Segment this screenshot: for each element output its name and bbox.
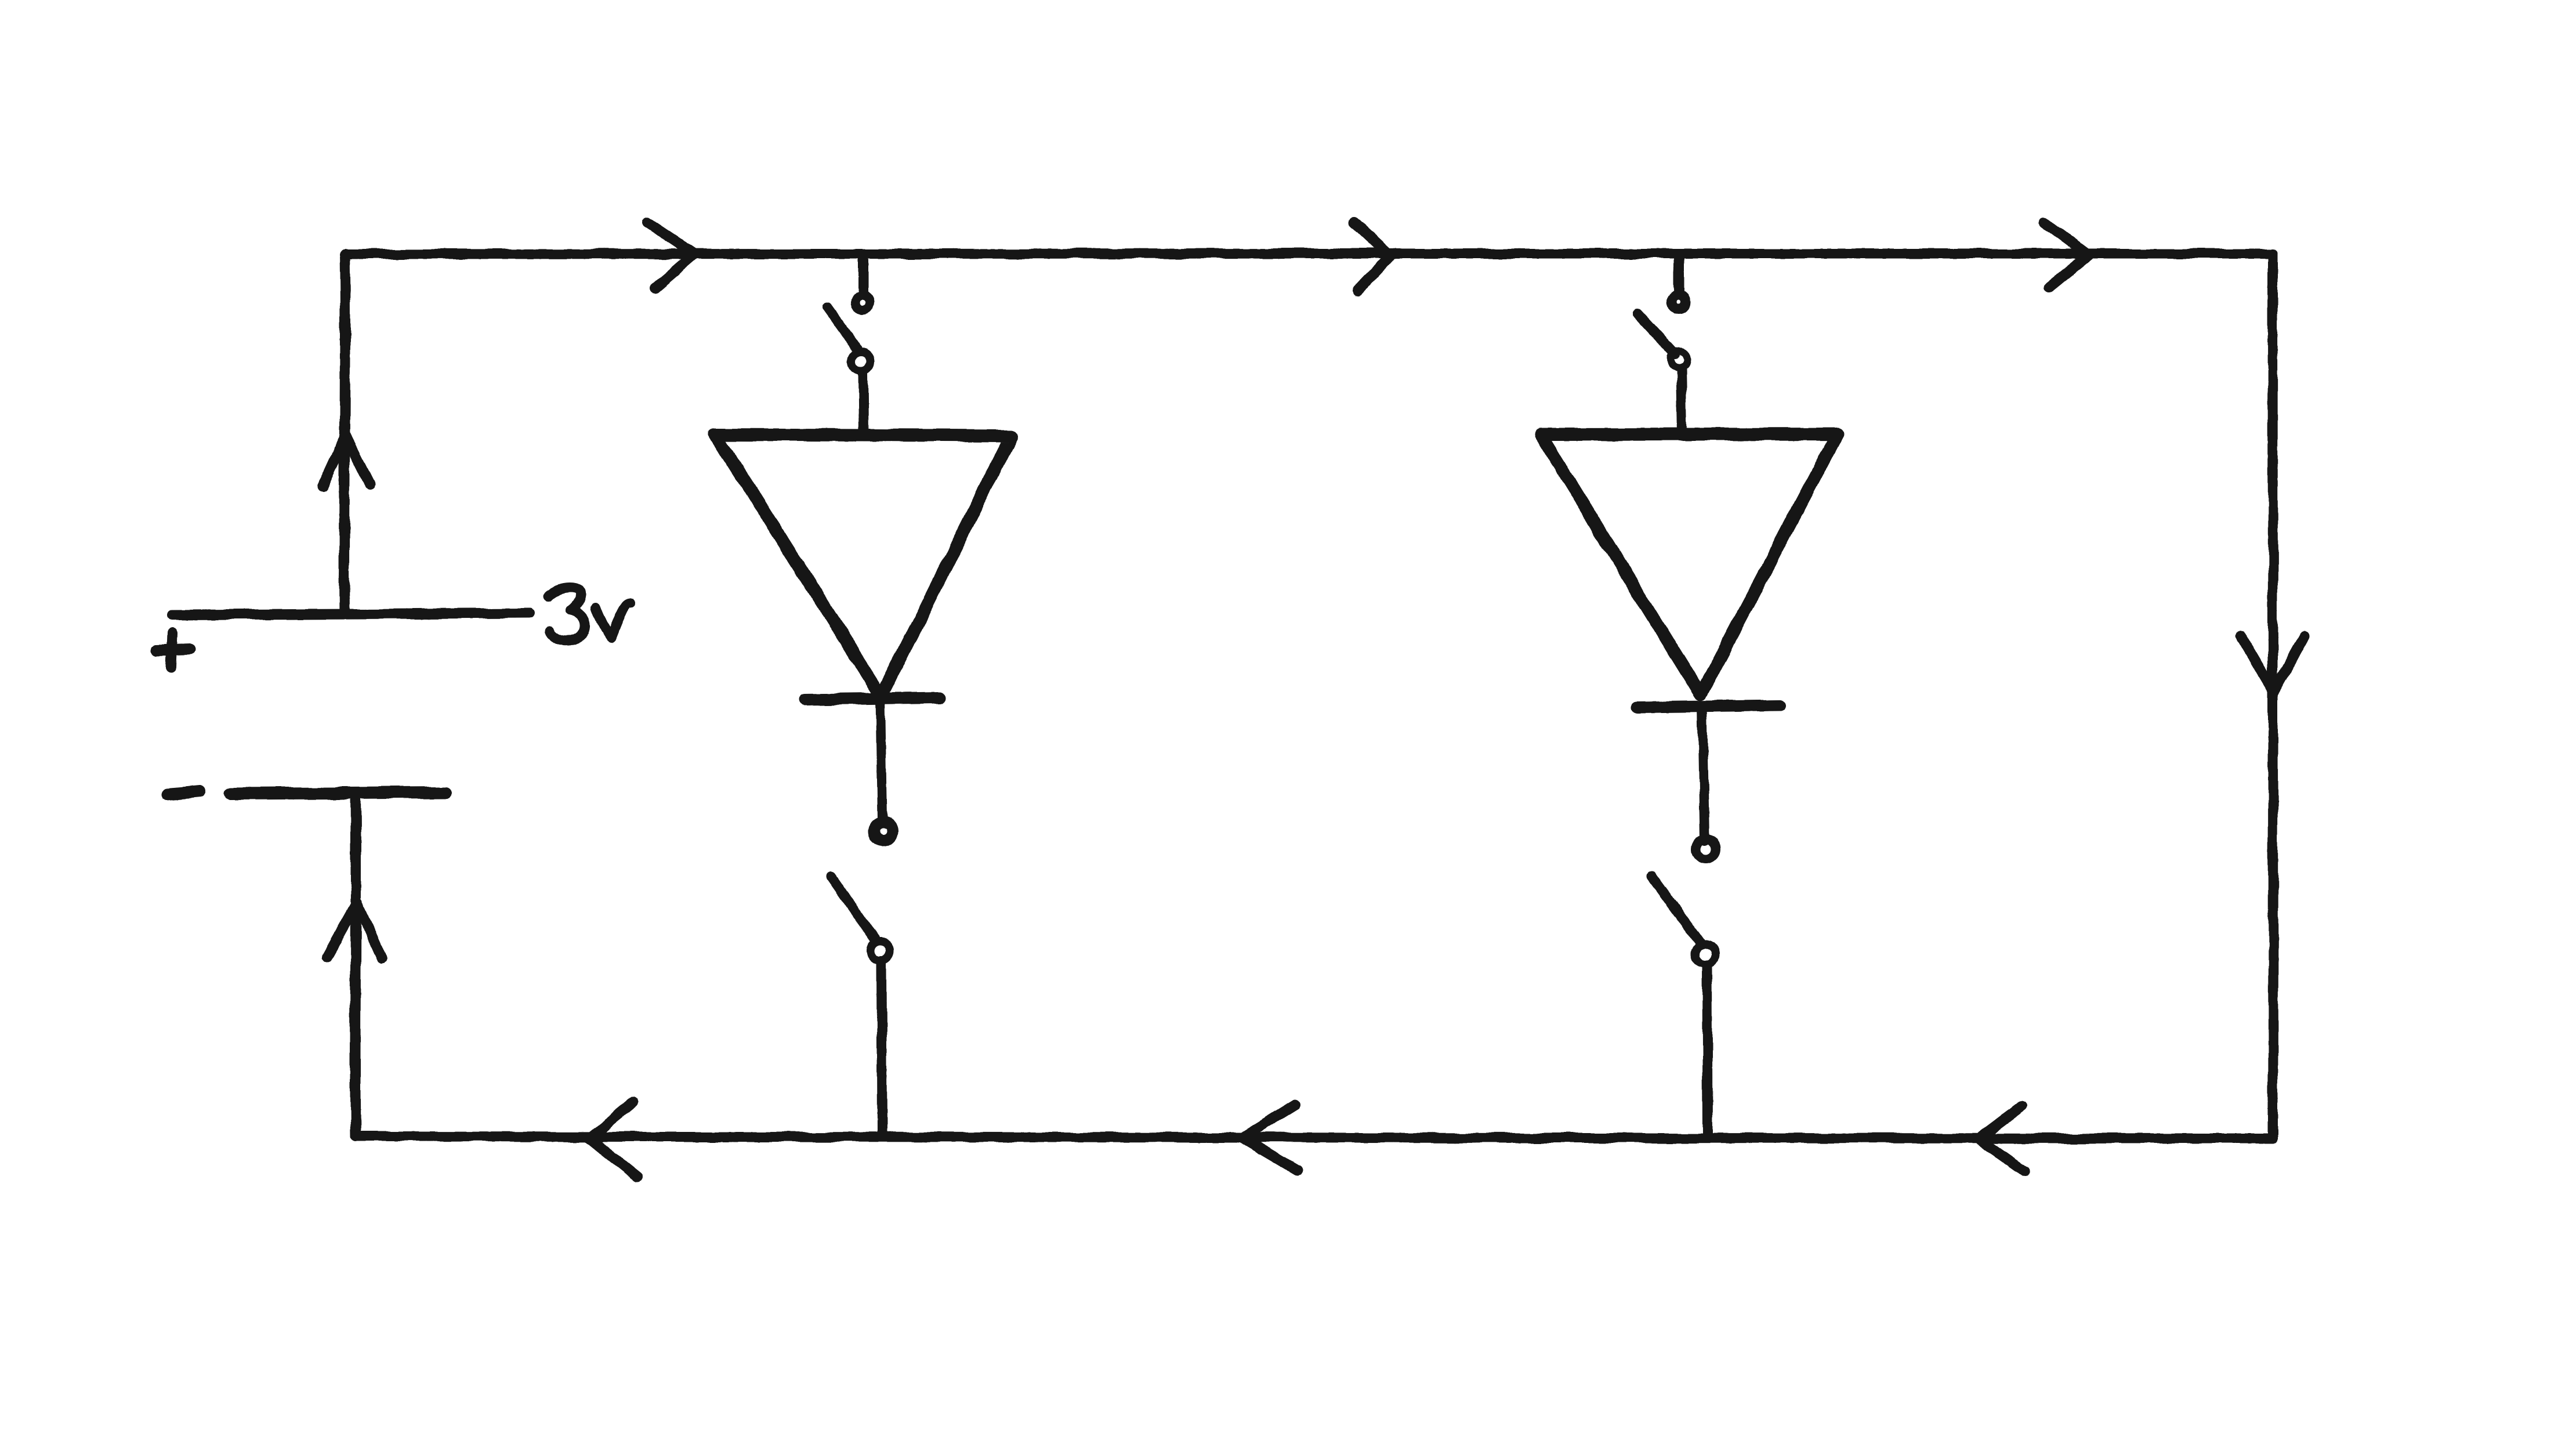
- wire: S4 pivot down to bottom bus: [1707, 965, 1708, 1137]
- current arrow A9 on left drop: [327, 903, 382, 958]
- current arrow A6 on bottom bus: [1242, 1105, 1297, 1170]
- switch S3 blade (open): [1637, 314, 1675, 354]
- battery + polarity sign: [156, 633, 190, 667]
- wire: left riser from battery + terminal up to node A: [345, 254, 345, 613]
- wire: left drop from bottom bus up to battery - terminal: [355, 794, 356, 1137]
- LED D2 triangle (anode): [1541, 434, 1838, 694]
- current arrow A3 on top wire: [2044, 222, 2089, 287]
- wire: top bus from node A to top-right corner: [344, 254, 2273, 254]
- current arrow A7 on bottom bus: [589, 1102, 637, 1177]
- value label 3v: [548, 587, 631, 641]
- LED D1 cathode bar: [805, 698, 939, 700]
- battery BT1 negative plate: [231, 793, 445, 794]
- switch S4 upper contact dot: [1696, 839, 1716, 859]
- switch S2 pivot contact circle: [871, 941, 890, 961]
- current arrow A4 on right bus: [2241, 635, 2305, 692]
- wire: bottom bus (bottom-right corner to bottom-left corner): [356, 1137, 2273, 1138]
- switch S1 blade (open): [828, 308, 857, 349]
- LED D1 triangle (anode): [715, 435, 1012, 696]
- switch S4 blade (open): [1652, 876, 1701, 943]
- switch S1 stub from top bus: [858, 254, 868, 291]
- current arrow A5 on bottom bus: [1979, 1106, 2024, 1171]
- switch S2 upper contact dot: [874, 822, 892, 841]
- current arrow A2 on top wire: [1354, 223, 1390, 291]
- switch S3 upper contact dot: [1672, 295, 1686, 309]
- wire: D2 cathode stem: [1702, 706, 1705, 841]
- battery - polarity sign: [167, 791, 201, 794]
- wire: S1 pivot to D1 anode: [863, 372, 864, 435]
- wire: D1 cathode stem: [881, 699, 882, 819]
- LED D2 cathode bar: [1637, 705, 1780, 707]
- switch S1 pivot contact circle: [852, 352, 871, 371]
- switch S2 blade (open): [831, 877, 876, 940]
- current arrow A8 on left riser: [323, 436, 369, 487]
- battery BT1 positive plate: [172, 613, 530, 615]
- wire: S3 pivot to D2 anode: [1681, 368, 1682, 434]
- wire: right bus (top-right corner down to bottom-right corner): [2273, 254, 2273, 1138]
- switch S3 stub from top bus: [1674, 254, 1684, 290]
- switch S1 upper contact dot: [855, 295, 870, 310]
- switch S3 pivot contact circle: [1671, 351, 1687, 367]
- wire: S2 pivot down to bottom bus: [882, 961, 882, 1137]
- current arrow A1 on top wire: [647, 222, 695, 288]
- switch S4 pivot contact circle: [1695, 945, 1715, 964]
